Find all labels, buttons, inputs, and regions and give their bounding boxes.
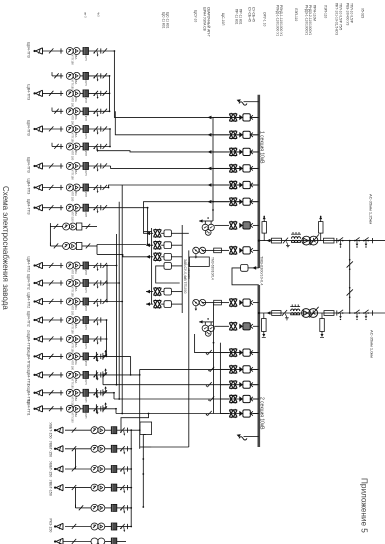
svg-text:4БА: 4БА	[74, 97, 78, 102]
terminal tick	[60, 185, 62, 190]
terminal tick	[100, 48, 102, 53]
load arrow	[36, 298, 43, 304]
wire	[65, 526, 91, 528]
switch slash	[49, 317, 53, 322]
switch slash	[49, 48, 53, 53]
arrow	[146, 232, 150, 236]
svg-text:ЧТП 180: ЧТП 180	[71, 97, 75, 108]
switch slash	[54, 109, 58, 114]
transformer T1	[302, 236, 311, 245]
arrester 1a	[262, 222, 267, 234]
switch slash	[79, 505, 83, 510]
svg-text:ЧТП 180: ЧТП 180	[71, 360, 75, 371]
terminal tick	[100, 354, 102, 359]
tall tick	[95, 352, 97, 361]
wire	[161, 256, 164, 258]
svg-text:ЩВ4-ТП3: ЩВ4-ТП3	[27, 84, 31, 100]
terminal tick	[100, 372, 102, 377]
terminal tick	[60, 48, 62, 53]
wire	[161, 244, 164, 246]
breaker	[229, 197, 237, 199]
wire	[105, 429, 112, 431]
svg-text:РНДЗ-1-110/1000У1: РНДЗ-1-110/1000У1	[305, 5, 309, 35]
second switch	[103, 263, 107, 268]
fuse	[83, 48, 89, 55]
terminal tick	[100, 91, 102, 96]
wire	[76, 507, 92, 509]
wire	[171, 256, 182, 258]
fuse	[83, 262, 89, 269]
wire	[43, 338, 64, 340]
breaker	[229, 130, 237, 132]
switch with arrow	[120, 446, 124, 451]
plug contacts	[239, 411, 243, 417]
riser V1	[116, 234, 118, 385]
wire	[213, 151, 229, 153]
junction	[349, 312, 351, 314]
terminal tick	[100, 406, 102, 411]
plug contacts	[239, 382, 243, 388]
svg-text:ЩВ4-ТП2: ЩВ4-ТП2	[27, 257, 31, 273]
tick	[336, 238, 338, 243]
load arrow	[36, 184, 43, 190]
wire	[80, 319, 83, 321]
svg-text:ав-3: ав-3	[84, 12, 88, 18]
wire	[65, 429, 91, 431]
second switch	[103, 163, 107, 168]
breaker	[229, 365, 237, 367]
wire	[259, 312, 385, 314]
wire	[43, 282, 64, 284]
fuse	[83, 405, 89, 412]
svg-text:КУП: КУП	[84, 80, 88, 85]
bus2 row3 left link	[103, 384, 259, 386]
switch with arrow	[120, 428, 124, 433]
svg-text:2хЩВ4-ТП1: 2хЩВ4-ТП1	[27, 347, 31, 367]
wire	[89, 146, 111, 148]
kWh meters	[91, 523, 98, 530]
wire	[82, 226, 97, 228]
switch with cable arrow	[94, 390, 98, 395]
svg-text:КУП: КУП	[84, 212, 88, 217]
svg-text:ЧТП 180: ЧТП 180	[71, 211, 75, 222]
second switch	[103, 205, 107, 210]
junction	[130, 448, 132, 450]
svg-text:4БА: 4БА	[74, 191, 78, 196]
source arrow 1	[244, 101, 259, 103]
load arrow	[36, 205, 43, 211]
wire	[89, 265, 117, 267]
arrow	[146, 302, 150, 306]
wire	[80, 146, 83, 148]
second switch	[103, 280, 107, 285]
svg-text:ЩВ4-ТП2: ЩВ4-ТП2	[27, 274, 31, 290]
load arrow	[36, 336, 43, 342]
bus section 1	[257, 95, 260, 268]
svg-text:4БА: 4БА	[74, 412, 78, 417]
junction	[130, 526, 132, 528]
svg-text:ЧТП 180: ЧТП 180	[71, 115, 75, 126]
link to bus row5	[109, 185, 259, 188]
switch	[363, 312, 365, 314]
wire	[171, 244, 182, 246]
junction	[130, 468, 132, 470]
svg-text:ЧТП 180: ЧТП 180	[71, 269, 75, 280]
terminal tick	[100, 185, 102, 190]
wire	[214, 224, 229, 226]
tall tick	[95, 370, 97, 379]
wire	[171, 232, 182, 234]
plug contacts	[239, 248, 243, 254]
switch with cable arrow	[94, 280, 98, 285]
incomer riser	[188, 250, 190, 447]
transformer T2	[302, 309, 311, 318]
junction	[349, 240, 351, 242]
svg-text:КУП: КУП	[84, 192, 88, 197]
wire	[80, 301, 83, 303]
row18 riser link	[139, 369, 141, 448]
svg-text:СУ-СБ-45: СУ-СБ-45	[252, 7, 256, 22]
left arrow	[208, 183, 212, 187]
plug contacts filled	[239, 324, 243, 330]
second switch	[103, 354, 107, 359]
wire	[52, 75, 63, 77]
plug contacts	[239, 182, 243, 188]
left arrow	[267, 311, 271, 315]
svg-text:4БА: 4БА	[74, 396, 78, 401]
stub	[143, 434, 146, 436]
svg-text:4БА: 4БА	[74, 150, 78, 155]
wire	[140, 446, 152, 448]
terminal tick	[100, 280, 102, 285]
wire	[43, 165, 64, 167]
svg-text:ЧТП 180: ЧТП 180	[71, 412, 75, 423]
second switch	[103, 144, 107, 149]
subpanel left bus	[151, 228, 153, 304]
plug contacts	[239, 396, 243, 402]
left arrow	[208, 116, 212, 120]
wire	[203, 302, 214, 304]
jumper rows 2-4	[109, 76, 111, 111]
tall tick	[95, 388, 97, 397]
second switch	[103, 299, 107, 304]
load arrow	[36, 163, 43, 169]
load arrow	[56, 466, 63, 472]
plug square	[164, 301, 171, 308]
wire	[89, 50, 115, 52]
svg-text:КУП: КУП	[84, 288, 88, 293]
kWh meters	[66, 336, 73, 343]
kWh meters	[63, 243, 70, 250]
fuse	[83, 298, 89, 305]
load arrow	[36, 262, 43, 268]
wire	[220, 352, 229, 354]
kWh meters	[66, 389, 73, 396]
breaker	[229, 147, 237, 149]
terminal tick	[60, 280, 62, 285]
switch slash	[49, 91, 53, 96]
fuse	[83, 90, 89, 97]
terminal tick	[100, 144, 102, 149]
plug contacts	[239, 149, 243, 155]
breaker	[229, 409, 237, 411]
svg-text:Схема электроснабжения завода: Схема электроснабжения завода	[1, 186, 10, 310]
wire	[89, 355, 131, 357]
svg-text:ЩВ4-ТП3: ЩВ4-ТП3	[27, 42, 31, 58]
junction	[130, 507, 132, 509]
second switch	[103, 91, 107, 96]
switch	[86, 243, 90, 248]
svg-text:УВБТ-150: УВБТ-150	[49, 480, 53, 496]
switch slash	[54, 73, 58, 78]
earthing switch	[282, 310, 287, 316]
switch with cable arrow	[94, 263, 98, 268]
breaker	[229, 180, 237, 182]
wire	[146, 256, 153, 258]
svg-text:ЩВ4-ТП2: ЩВ4-ТП2	[27, 293, 31, 309]
svg-text:КУП: КУП	[84, 98, 88, 103]
svg-text:ЧТП 180: ЧТП 180	[71, 191, 75, 202]
bus2 row2 left link	[140, 368, 259, 370]
chain hook	[102, 353, 104, 360]
wire	[43, 408, 64, 410]
svg-text:ЧТП 180: ЧТП 180	[71, 133, 75, 144]
svg-text:РНДЗ-2-110/1000У1: РНДЗ-2-110/1000У1	[308, 5, 312, 35]
kWh meters	[91, 504, 98, 511]
breaker	[153, 229, 161, 231]
plug contacts	[239, 166, 243, 172]
wire	[89, 110, 110, 112]
terminal tick	[100, 317, 102, 322]
terminal tick	[60, 205, 62, 210]
wire	[253, 184, 259, 186]
stub tick	[49, 243, 51, 246]
svg-text:ТПЛ-10 0,5/Р 75/5: ТПЛ-10 0,5/Р 75/5	[339, 3, 343, 30]
svg-text:ЩВ4-ТП3: ЩВ4-ТП3	[27, 179, 31, 195]
wire	[237, 184, 239, 186]
wire	[146, 303, 153, 305]
kWh meters	[66, 48, 73, 55]
switch with cable arrow	[94, 205, 98, 210]
wire	[80, 75, 83, 77]
subpanel left feeds	[97, 244, 146, 246]
chain hook	[102, 405, 104, 412]
switch slash	[49, 205, 53, 210]
terminal tick	[100, 73, 102, 78]
stub tick	[51, 143, 53, 147]
wire	[253, 201, 259, 203]
fuse rect	[272, 238, 282, 243]
wire	[253, 368, 259, 370]
switch slash	[49, 336, 53, 341]
svg-text:СВАРОЧНЫЙ АП-Т: СВАРОЧНЫЙ АП-Т	[207, 7, 211, 37]
switch with cable arrow	[94, 144, 98, 149]
stagger switches bus2 rows	[207, 350, 211, 355]
svg-text:4БА: 4БА	[74, 324, 78, 329]
svg-text:ЩВ4-ТП2: ЩВ4-ТП2	[27, 311, 31, 327]
switch	[354, 240, 356, 242]
fuse	[111, 504, 117, 511]
winding	[291, 309, 294, 311]
trunk to bus row2	[115, 111, 258, 135]
stub tick	[51, 108, 53, 112]
wire	[43, 355, 64, 357]
fuse	[83, 280, 89, 287]
fuse	[83, 317, 89, 324]
breaker	[153, 252, 161, 254]
switch slash	[49, 263, 53, 268]
feed jog	[97, 254, 146, 256]
switch with cable arrow	[94, 126, 98, 131]
wire	[82, 245, 97, 247]
kWh meters	[66, 262, 73, 269]
switch with cable arrow	[94, 406, 98, 411]
load arrow	[36, 90, 43, 96]
svg-text:ШРА4 УЗЛА СВ: ШРА4 УЗЛА СВ	[203, 7, 207, 32]
fuse rect	[324, 311, 334, 316]
wire	[65, 487, 91, 489]
switch slash	[54, 224, 58, 229]
crossing vertical x213	[212, 117, 214, 210]
wire	[43, 187, 64, 189]
arrow	[146, 290, 150, 294]
switch slash	[49, 406, 53, 411]
pair link	[75, 449, 77, 469]
second switch	[103, 372, 107, 377]
svg-text:КУП: КУП	[84, 151, 88, 156]
wire	[80, 338, 83, 340]
arrow	[146, 255, 150, 259]
wire	[52, 146, 63, 148]
svg-text:КУП: КУП	[84, 344, 88, 349]
plug contacts	[239, 115, 243, 121]
plug square	[164, 288, 171, 295]
breaker	[229, 221, 237, 223]
breaker	[229, 380, 237, 382]
switch	[363, 240, 365, 242]
arrester 2a	[262, 319, 267, 332]
breaker	[153, 300, 161, 302]
wire	[43, 207, 64, 209]
link to bus row3	[97, 151, 259, 152]
terminal tick	[100, 299, 102, 304]
wire	[221, 302, 229, 304]
plug square	[164, 230, 171, 237]
terminal tick	[60, 73, 62, 78]
switch with cable arrow	[94, 48, 98, 53]
bus2 row1 left link	[195, 334, 259, 353]
svg-text:ЩВ4-ТП3: ЩВ4-ТП3	[27, 157, 31, 173]
svg-text:КУП: КУП	[84, 306, 88, 311]
wire	[213, 167, 229, 169]
terminal tick	[100, 126, 102, 131]
wire	[43, 301, 64, 303]
junction	[114, 50, 116, 52]
fuse rect	[214, 300, 222, 305]
tall tick	[95, 404, 97, 413]
svg-text:ЧТП 180: ЧТП 180	[71, 55, 75, 66]
switch with cable arrow	[94, 372, 98, 377]
svg-text:ЩСУ-10: ЩСУ-10	[194, 10, 198, 22]
breaker	[229, 348, 237, 350]
source arrow 2	[244, 436, 259, 438]
pair link	[75, 488, 77, 508]
svg-text:КУП: КУП	[84, 56, 88, 61]
second switch	[103, 390, 107, 395]
switch	[338, 312, 340, 314]
wire	[214, 325, 229, 327]
down arrow	[195, 306, 197, 309]
kWh meters	[66, 126, 73, 133]
load arrow	[36, 48, 43, 54]
wire	[89, 75, 110, 77]
bus2 row5 left link	[116, 413, 259, 415]
wire	[259, 240, 385, 242]
wire	[220, 413, 229, 415]
bus2 row4 left link	[114, 398, 259, 400]
wire	[253, 398, 259, 400]
wire	[253, 116, 259, 118]
svg-text:1 секция 10кВ: 1 секция 10кВ	[258, 131, 264, 164]
wire	[253, 302, 259, 304]
terminal tick	[60, 163, 62, 168]
kWh meters	[66, 90, 73, 97]
wire	[213, 116, 229, 118]
kWh meters	[91, 445, 98, 452]
switch with arrow	[120, 466, 124, 471]
kWh meters	[66, 371, 73, 378]
svg-text:ПРН-110М: ПРН-110М	[313, 5, 317, 21]
wire	[89, 301, 123, 303]
svg-text:ЩВ4-ТП3: ЩВ4-ТП3	[27, 199, 31, 215]
left arrow	[208, 150, 212, 154]
svg-text:СУ-СБ-45: СУ-СБ-45	[248, 7, 252, 22]
fuse	[111, 466, 117, 473]
left arrow	[208, 200, 212, 204]
tick	[372, 310, 374, 315]
wire	[89, 392, 115, 394]
junction	[130, 487, 132, 489]
switch with cable arrow	[94, 336, 98, 341]
terminal tick	[100, 163, 102, 168]
wire	[80, 165, 83, 167]
svg-text:КУП: КУП	[84, 361, 88, 366]
wire	[105, 487, 112, 489]
wire	[220, 398, 229, 400]
switch	[347, 289, 353, 295]
load arrow	[36, 280, 43, 286]
svg-text:ПР-11 831: ПР-11 831	[235, 9, 239, 25]
subpanel loop row	[164, 263, 171, 270]
breaker	[229, 113, 237, 115]
load arrow	[56, 427, 63, 433]
riser V2	[118, 202, 120, 399]
load arrow	[36, 372, 43, 378]
svg-text:2 секция 10кВ: 2 секция 10кВ	[258, 397, 264, 430]
left arrow	[208, 133, 212, 137]
kWh meters	[66, 143, 73, 150]
load arrow	[36, 353, 43, 359]
wire	[253, 134, 259, 136]
svg-text:УВБТ-150: УВБТ-150	[49, 441, 53, 457]
kWh meters	[91, 466, 98, 473]
svg-text:КУП: КУП	[84, 379, 88, 384]
wire	[80, 207, 83, 209]
switch slash	[72, 485, 76, 490]
second switch	[103, 126, 107, 131]
svg-text:КУП: КУП	[84, 116, 88, 121]
wire	[89, 374, 140, 376]
